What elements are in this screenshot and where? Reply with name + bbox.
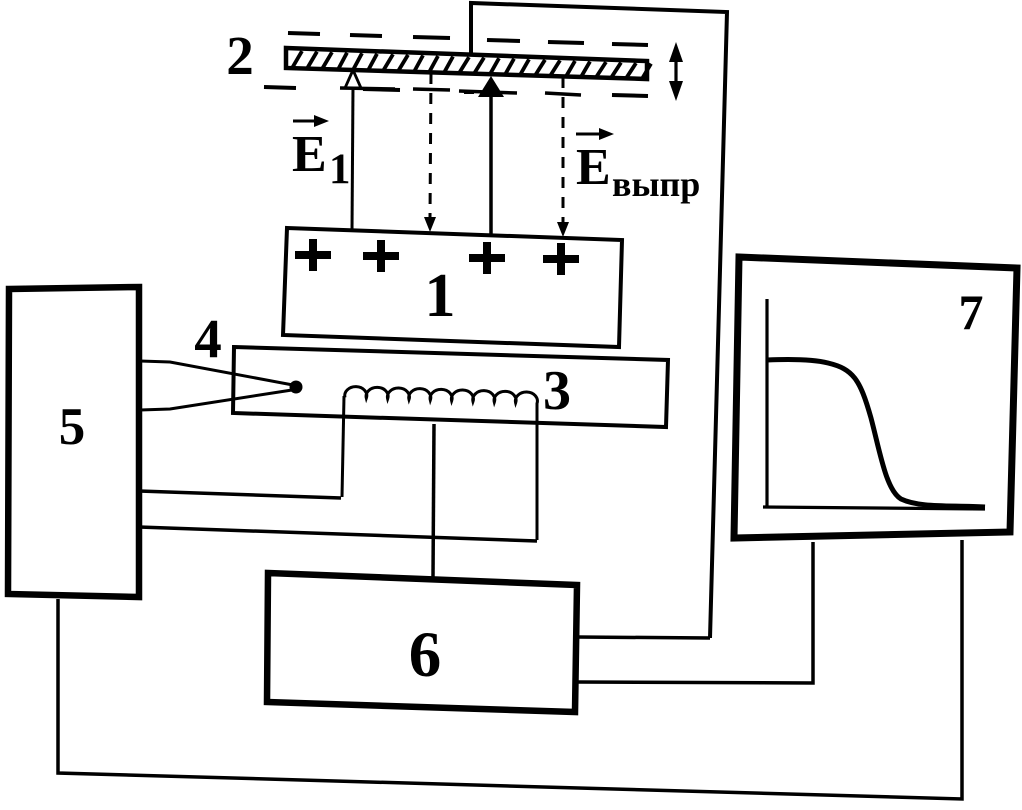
svg-text:7: 7 xyxy=(959,284,984,340)
svg-text:1: 1 xyxy=(425,262,456,330)
svg-text:2: 2 xyxy=(226,25,254,86)
svg-text:E: E xyxy=(576,139,611,196)
svg-text:3: 3 xyxy=(543,360,571,422)
svg-text:1: 1 xyxy=(329,146,351,193)
svg-text:6: 6 xyxy=(409,619,442,691)
svg-text:4: 4 xyxy=(194,308,222,369)
svg-text:E: E xyxy=(292,126,327,183)
svg-text:5: 5 xyxy=(59,398,86,456)
svg-text:выпр: выпр xyxy=(612,164,700,204)
